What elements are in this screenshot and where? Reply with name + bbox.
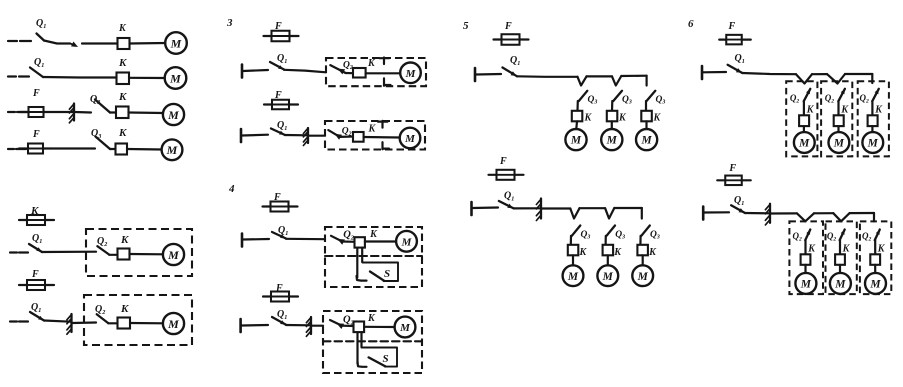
- wire: [611, 121, 613, 129]
- enclosure (dashed) g6 b2: [826, 221, 857, 294]
- wire: [814, 212, 833, 214]
- wire: [542, 207, 570, 209]
- svg-text:M: M: [834, 279, 846, 291]
- motor M (b3): [636, 129, 657, 150]
- svg-text:K: K: [118, 127, 127, 139]
- wire: [604, 236, 606, 245]
- terminal: [474, 68, 477, 81]
- contactor contact K (g6 b2): [835, 254, 845, 264]
- svg-text:F: F: [499, 156, 507, 167]
- svg-text:K: K: [807, 244, 816, 255]
- wire: [130, 253, 164, 256]
- svg-text:M: M: [567, 271, 579, 283]
- wire: [611, 101, 613, 111]
- wire: [473, 206, 498, 209]
- wire: [704, 211, 729, 213]
- svg-text:F: F: [31, 269, 39, 280]
- svg-text:5: 5: [463, 20, 469, 32]
- terminal: [701, 66, 704, 79]
- svg-text:M: M: [167, 317, 179, 331]
- svg-text:K: K: [120, 234, 129, 246]
- wire: [129, 111, 164, 114]
- enclosure (dashed) g6 t2: [821, 81, 852, 156]
- enclosure (dashed) g3 row2: [325, 121, 425, 150]
- svg-text:3: 3: [226, 17, 233, 29]
- wire: [804, 240, 806, 254]
- wire: [745, 212, 769, 215]
- motor M: [794, 132, 815, 153]
- limit switch S frame: [363, 263, 399, 282]
- wall crossing: [310, 317, 312, 334]
- wire: [366, 72, 401, 74]
- enclosure (dashed) g6 b1: [789, 221, 823, 294]
- enclosure (dashed) g3 row1: [326, 58, 426, 86]
- svg-text:K: K: [806, 105, 815, 116]
- svg-text:K: K: [584, 113, 593, 124]
- enclosure (dashed) group2 row2: [84, 295, 192, 345]
- motor M (row 2): [165, 67, 187, 89]
- wire: [476, 73, 501, 76]
- svg-text:M: M: [833, 138, 845, 150]
- wire: [621, 75, 646, 78]
- svg-text:F: F: [504, 21, 512, 32]
- branch tap 1: [797, 213, 814, 221]
- wire: [286, 324, 310, 326]
- branch tap 3 (end turn): [641, 208, 643, 219]
- wire (down from K): [356, 333, 358, 364]
- wire: [570, 236, 572, 245]
- node: supply lead row 3: [8, 111, 15, 113]
- terminal: [239, 319, 242, 332]
- enclosure divider: [383, 58, 385, 65]
- limit switch S frame: [362, 348, 398, 367]
- wire: [284, 70, 326, 73]
- wire: [639, 236, 641, 245]
- svg-text:K: K: [367, 58, 376, 69]
- wall crossing: [769, 204, 771, 223]
- wire: [850, 212, 874, 214]
- wire: [72, 321, 96, 324]
- contactor contact K: [834, 115, 844, 126]
- wire: [645, 101, 647, 111]
- svg-text:6: 6: [688, 18, 694, 30]
- switch Q1 blade (g6 top): [728, 65, 743, 73]
- motor M: [163, 313, 184, 334]
- wire: [645, 121, 647, 129]
- wall crossing: [73, 104, 75, 121]
- svg-text:M: M: [405, 68, 417, 80]
- svg-text:M: M: [170, 36, 182, 50]
- wire: [803, 101, 805, 115]
- wire: [587, 75, 613, 77]
- motor M: [163, 244, 184, 265]
- wire: [242, 324, 268, 327]
- svg-text:M: M: [867, 138, 879, 150]
- branch tap 2: [612, 76, 621, 86]
- wire: [82, 42, 117, 44]
- branch tap 3 (end turn): [871, 74, 873, 83]
- svg-text:K: K: [874, 105, 883, 116]
- enclosure (dashed) g6 t1: [786, 81, 817, 156]
- branch tap 2: [827, 74, 845, 84]
- motor M (g6 b1): [795, 273, 816, 294]
- wire (down from K): [356, 248, 358, 278]
- svg-text:M: M: [167, 108, 179, 122]
- terminal: [702, 207, 705, 220]
- motor M: [400, 128, 421, 149]
- wire: [242, 134, 268, 137]
- svg-text:M: M: [570, 135, 582, 147]
- wire: [286, 238, 325, 241]
- enclosure (dashed) g4 row1: [325, 227, 422, 287]
- contactor contact K: [868, 115, 878, 126]
- wire (main feeder): [742, 73, 796, 74]
- enclosure (dashed) g6 b3: [860, 221, 891, 294]
- svg-text:K: K: [579, 247, 588, 258]
- wire: [365, 240, 396, 242]
- wire: [837, 126, 839, 132]
- wire: [576, 101, 578, 111]
- wire: [845, 73, 872, 75]
- svg-text:M: M: [869, 279, 881, 291]
- wire: [607, 255, 609, 265]
- wire: [874, 240, 876, 254]
- svg-text:K: K: [369, 229, 378, 240]
- motor M: [597, 265, 618, 286]
- svg-text:M: M: [166, 143, 178, 157]
- enclosure divider (horizontal): [325, 255, 422, 257]
- enclosure (dashed) group2 row1: [86, 229, 192, 276]
- svg-text:K: K: [118, 57, 127, 69]
- wire: [42, 251, 96, 254]
- svg-text:S: S: [383, 353, 389, 365]
- svg-text:K: K: [368, 124, 377, 135]
- node: supply lead row 2: [8, 75, 16, 77]
- wire: [803, 126, 805, 132]
- motor M: [632, 265, 653, 286]
- wall crossing: [307, 128, 309, 143]
- terminal: [241, 234, 244, 247]
- wire (main feeder): [517, 75, 578, 78]
- motor M (g6 b3): [865, 273, 886, 294]
- contactor contact K (g6 b3): [870, 254, 880, 264]
- motor M: [829, 132, 850, 153]
- terminal: [240, 129, 243, 142]
- svg-text:K: K: [842, 244, 851, 255]
- wire: [804, 265, 806, 273]
- wall crossing: [70, 314, 72, 332]
- wire: [364, 326, 394, 328]
- limit switch S blade: [370, 272, 384, 281]
- wire: [514, 207, 540, 209]
- enclosure divider (horizontal): [323, 340, 422, 342]
- branch tap 1: [578, 76, 587, 85]
- wire: [243, 238, 269, 241]
- wire: [285, 134, 307, 137]
- svg-text:K: K: [618, 113, 627, 124]
- svg-text:K: K: [877, 244, 886, 255]
- svg-text:4: 4: [228, 183, 235, 195]
- svg-text:M: M: [169, 71, 181, 85]
- svg-text:K: K: [367, 313, 376, 324]
- svg-text:M: M: [637, 271, 649, 283]
- svg-text:F: F: [32, 88, 40, 99]
- wire: [703, 71, 726, 74]
- motor M: [862, 132, 883, 153]
- svg-text:F: F: [728, 21, 736, 32]
- wire: [871, 126, 873, 132]
- svg-text:M: M: [640, 135, 652, 147]
- wire: [43, 76, 116, 79]
- wire: [130, 42, 166, 45]
- node: supply lead row 4: [8, 148, 14, 150]
- switch Q1 blade (g5 bottom): [499, 201, 514, 208]
- motor M: [563, 265, 584, 286]
- contactor contact K: [799, 115, 809, 126]
- motor M (row 4): [162, 139, 183, 160]
- branch tap 1: [796, 74, 812, 83]
- wire: [839, 265, 841, 273]
- svg-text:M: M: [404, 133, 416, 145]
- wire: [771, 212, 797, 214]
- wire: [364, 136, 400, 139]
- terminal: [470, 202, 473, 215]
- branch tap 2: [833, 213, 849, 221]
- svg-text:M: M: [800, 279, 812, 291]
- enclosure (dashed) g6 t3: [858, 81, 889, 156]
- wire: [52, 111, 73, 113]
- wire: [614, 207, 642, 209]
- svg-text:M: M: [167, 248, 179, 262]
- svg-text:M: M: [798, 138, 810, 150]
- wire: [127, 148, 162, 151]
- wire (hook): [357, 276, 367, 281]
- svg-text:K: K: [648, 247, 657, 258]
- wire: [874, 265, 876, 273]
- svg-text:M: M: [602, 271, 614, 283]
- branch tap 1: [570, 208, 579, 218]
- wire: [642, 255, 644, 265]
- wire: [243, 70, 268, 71]
- enclosure (dashed) g4 row2: [323, 311, 422, 373]
- wire: [44, 321, 71, 322]
- wire: [44, 41, 70, 44]
- wire: [309, 135, 325, 137]
- branch tap 2: [605, 208, 614, 219]
- wire: [129, 77, 164, 79]
- switch Q1 blade (g5 top): [503, 68, 518, 77]
- wire: [572, 255, 574, 265]
- svg-text:K: K: [118, 91, 127, 103]
- wire: [312, 325, 323, 327]
- motor M (row 3): [163, 104, 184, 125]
- svg-text:K: K: [613, 247, 622, 258]
- branch tap 3 (end turn): [873, 213, 875, 221]
- svg-text:K: K: [120, 303, 129, 315]
- wire: [75, 111, 91, 114]
- motor M (b1): [565, 129, 586, 150]
- motor M (g6 b2): [830, 273, 851, 294]
- wire: [580, 207, 606, 209]
- wire: [839, 240, 841, 254]
- svg-text:M: M: [606, 135, 618, 147]
- wire: [51, 147, 95, 149]
- motor M (b2): [601, 129, 622, 150]
- wire: [837, 101, 839, 115]
- contactor contact K (g6 b1): [801, 254, 811, 264]
- wire: [130, 322, 163, 324]
- enclosure divider: [381, 121, 383, 128]
- branch tap 3 (end turn): [645, 76, 647, 86]
- wire (hook): [358, 362, 367, 367]
- arrow mark on wire: [71, 42, 78, 48]
- terminal: [241, 65, 244, 78]
- svg-text:F: F: [32, 129, 40, 140]
- svg-text:F: F: [728, 163, 736, 174]
- motor M: [395, 317, 416, 338]
- wire: [575, 121, 578, 129]
- svg-text:S: S: [384, 268, 390, 280]
- limit switch S blade: [369, 357, 386, 366]
- svg-text:K: K: [840, 105, 849, 116]
- wire: [812, 73, 827, 75]
- svg-text:K: K: [118, 23, 127, 34]
- motor M: [396, 231, 417, 252]
- motor M (row 1): [165, 32, 187, 54]
- svg-text:M: M: [399, 322, 411, 334]
- node: supply lead row 1: [8, 40, 17, 42]
- switch Q1 blade (g6 bottom): [731, 205, 745, 213]
- svg-text:K: K: [653, 113, 662, 124]
- wire: [871, 101, 873, 115]
- wall crossing: [540, 199, 542, 219]
- motor M: [400, 63, 421, 84]
- svg-text:M: M: [401, 236, 413, 248]
